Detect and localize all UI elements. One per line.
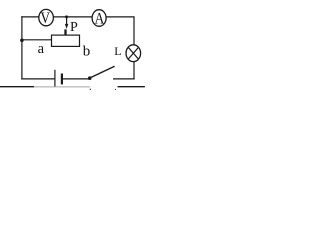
wire top rail: [21, 16, 134, 18]
clipped character mark 2: [115, 89, 116, 90]
node junction dot at slider branch: [65, 15, 68, 18]
node junction dot on left rail: [20, 39, 24, 43]
wire left rail: [21, 16, 23, 79]
arrowhead pointing to slider P: [65, 24, 68, 29]
lamp L circle: [126, 45, 141, 62]
lamp cross stroke 2: [128, 47, 138, 59]
wire bottom right segment: [113, 78, 135, 80]
battery short plate (-): [61, 74, 63, 85]
battery long plate (+): [54, 70, 56, 87]
voltmeter U1 circle: [39, 9, 54, 25]
slider contact tick: [64, 29, 66, 35]
svg-text:A: A: [94, 10, 104, 27]
wire to rheostat terminal a: [22, 39, 52, 41]
ammeter U2 circle: [92, 10, 106, 27]
underline faint middle: [34, 86, 90, 88]
underline segment left: [0, 86, 34, 88]
svg-text:a: a: [38, 41, 45, 57]
wire bottom left segment: [21, 78, 54, 80]
lamp cross stroke 1: [128, 47, 138, 59]
wire right rail: [133, 17, 135, 80]
wire slider drop: [66, 17, 68, 25]
underline segment right: [118, 86, 145, 88]
wire bottom middle segment: [63, 78, 90, 80]
svg-text:L: L: [114, 44, 121, 58]
svg-text:b: b: [83, 43, 91, 59]
clipped character mark 1: [90, 89, 91, 90]
svg-text:V: V: [40, 10, 50, 27]
switch pivot dot: [88, 76, 92, 80]
rheostat R (slide) body: [52, 35, 80, 46]
svg-text:P: P: [70, 20, 78, 35]
switch lever (open): [90, 66, 114, 78]
